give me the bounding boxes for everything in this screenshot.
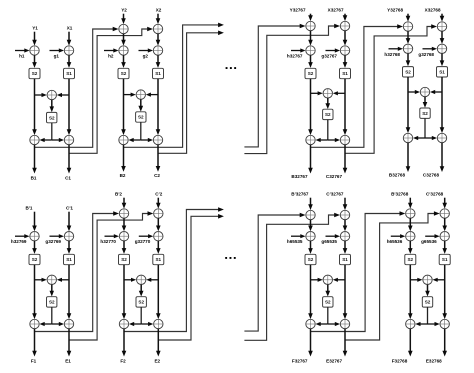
- svg-text:C′32767: C′32767: [326, 192, 344, 197]
- wire unit2 right branch into middle xor: [150, 94, 158, 96]
- wire unit2 output arrow B2: [123, 145, 125, 168]
- svg-text:S2: S2: [325, 300, 331, 305]
- svg-text:S1: S1: [155, 257, 161, 262]
- wire unit1 key input h1: [15, 50, 26, 52]
- xor gate unit32770 feedback-mix right: [154, 209, 163, 218]
- wire unit32769 right input arrow: [68, 212, 70, 227]
- wire unit1 output arrow C1: [68, 145, 70, 169]
- wire unit32767 junction to right output xor: [328, 139, 336, 141]
- svg-text:h65535: h65535: [287, 239, 303, 244]
- svg-text:B1: B1: [31, 175, 37, 180]
- wire unit32768 junction to right output xor: [425, 137, 433, 139]
- wire bottom-row continuation into unit3 right (jog): [244, 215, 335, 340]
- wire unit32767 key-xor to sbox right: [344, 55, 346, 63]
- wire unit32767 right branch down: [344, 79, 346, 131]
- svg-text:F2: F2: [120, 358, 126, 363]
- sbox unit65535 S2 middle: [323, 297, 333, 307]
- xor gate unit2 output left: [119, 135, 128, 144]
- wire top-row continuation into unit3 right (jog): [244, 26, 335, 154]
- svg-text:Y32767: Y32767: [290, 8, 306, 13]
- wire unit32770 left fb-xor to key-xor: [123, 218, 125, 227]
- svg-text:B′2: B′2: [115, 192, 122, 197]
- svg-text:Y1: Y1: [32, 26, 38, 31]
- xor gate unit32770 key-mix right (g32770): [154, 232, 163, 241]
- xor gate unit2 middle mixing: [136, 90, 145, 99]
- sbox unit32768 S1 right: [437, 67, 448, 77]
- xor gate unit32769 key-mix right (g32769): [64, 232, 73, 241]
- sbox unit32767 S2 middle: [323, 109, 333, 119]
- svg-text:C1: C1: [65, 175, 71, 180]
- xor gate unit1 middle mixing: [47, 90, 56, 99]
- svg-text:C′1: C′1: [66, 206, 73, 211]
- svg-text:g32768: g32768: [418, 52, 434, 57]
- wire unit2 left input arrow: [123, 14, 125, 20]
- svg-text:S2: S2: [121, 257, 127, 262]
- sbox unit32769 S2 middle: [47, 297, 57, 307]
- svg-text:S2: S2: [32, 71, 38, 76]
- wire top-row feedback C1 to unit2 right (jog): [69, 29, 148, 153]
- wire unit32770 output arrow F2: [123, 329, 125, 352]
- svg-text:S2: S2: [407, 257, 413, 262]
- xor gate unit2 key-mix left (h2): [119, 46, 128, 55]
- xor gate unit65536 output left: [406, 319, 415, 328]
- wire unit32768 right fb-xor to key-xor: [441, 31, 443, 39]
- wire unit1 middle xor to sbox S2: [51, 100, 53, 108]
- wire unit32769 right branch into middle xor: [61, 279, 69, 281]
- xor gate unit65535 key-mix right (g65535): [340, 232, 349, 241]
- wire unit1 right branch down: [68, 79, 70, 131]
- wire unit32770 left branch down: [123, 265, 125, 315]
- wire unit32767 junction to left output xor: [320, 139, 328, 141]
- svg-text:g65536: g65536: [421, 239, 437, 244]
- xor gate unit32767 output left: [306, 135, 315, 144]
- wire unit32768 middle xor to sbox S2: [424, 97, 426, 104]
- wire unit1 junction to right output xor: [52, 139, 60, 141]
- wire unit32769 output arrow E1: [68, 329, 70, 352]
- wire unit65536 key-xor to sbox left: [409, 241, 411, 249]
- wire unit2 key-xor to sbox right: [157, 55, 159, 63]
- xor gate unit32770 output right: [154, 319, 163, 328]
- wire unit32768 key input h32768: [389, 48, 400, 50]
- sbox unit32769 S1 right: [64, 254, 75, 264]
- ellipsis bottom row: [225, 257, 227, 259]
- xor gate unit32770 feedback-mix left: [119, 209, 128, 218]
- xor gate unit32770 output left: [119, 319, 128, 328]
- wire unit32767 right branch into middle xor: [337, 92, 345, 94]
- wire unit32767 left branch into middle xor: [311, 92, 319, 94]
- wire unit32769 middle xor to sbox S2: [51, 285, 53, 292]
- wire unit32768 left branch down: [407, 77, 409, 129]
- wire unit65535 key input g65535: [326, 235, 337, 237]
- xor gate unit32767 key-mix left (h32767): [306, 46, 315, 55]
- xor gate unit2 output right: [153, 135, 162, 144]
- svg-text:S2: S2: [405, 70, 411, 75]
- wire unit32767 left fb-xor to key-xor: [310, 31, 312, 41]
- svg-text:F32767: F32767: [292, 358, 308, 363]
- xor gate unit32767 key-mix right (g32767): [340, 46, 349, 55]
- wire unit2 key input h2: [104, 50, 115, 52]
- svg-text:S2: S2: [138, 115, 144, 120]
- wire unit65535 output arrow F32767: [310, 329, 312, 352]
- svg-text:h2: h2: [108, 54, 114, 59]
- wire unit1 middle sbox down to junction: [51, 123, 53, 140]
- wire unit65535 right branch down: [344, 265, 346, 315]
- wire unit32768 output arrow B32768: [407, 143, 409, 168]
- wire unit32769 right branch down: [68, 265, 70, 315]
- xor gate unit32767 feedback-mix left: [306, 21, 315, 30]
- sbox unit65536 S1 right: [439, 254, 450, 264]
- wire unit32768 junction to left output xor: [417, 137, 425, 139]
- wire unit32770 middle sbox down to junction: [140, 307, 142, 324]
- wire bottom-row feedback C2 toward ellipsis: [158, 216, 219, 340]
- xor gate unit65535 feedback-mix right: [340, 210, 349, 219]
- wire unit65536 key-xor to sbox right: [444, 241, 446, 249]
- wire unit65535 left fb-xor to key-xor: [310, 220, 312, 227]
- wire unit2 left fb-xor to key-xor: [123, 34, 125, 41]
- wire unit32767 right input arrow: [344, 14, 346, 17]
- wire unit32769 key input h32769: [15, 235, 26, 237]
- wire unit32769 key-xor to sbox right: [68, 241, 70, 249]
- sbox unit65536 S2 left: [405, 254, 416, 264]
- wire unit2 middle sbox down to junction: [140, 122, 142, 140]
- wire unit32769 junction to left output xor: [44, 323, 52, 325]
- wire unit32770 right input arrow: [157, 198, 159, 204]
- wire bottom-row feedback B2 toward ellipsis: [124, 210, 219, 332]
- sbox unit1 S2 left: [29, 68, 40, 78]
- xor gate unit32768 key-mix right (g32768): [437, 44, 446, 53]
- xor gate unit1 key-mix right (g1): [64, 46, 73, 55]
- xor gate unit32767 output right: [340, 135, 349, 144]
- wire unit32770 right branch into middle xor: [150, 279, 158, 281]
- svg-text:g32770: g32770: [135, 239, 151, 244]
- wire unit1 key-xor to sbox left: [34, 55, 36, 63]
- xor gate unit2 feedback-mix left: [119, 24, 128, 33]
- svg-text:g2: g2: [143, 54, 149, 59]
- svg-text:h32768: h32768: [384, 52, 400, 57]
- wire unit1 output arrow B1: [34, 145, 36, 169]
- sbox unit32770 S1 right: [153, 254, 164, 264]
- svg-text:C′32768: C′32768: [426, 192, 444, 197]
- sbox unit2 S2 middle: [136, 112, 146, 122]
- svg-text:S2: S2: [138, 300, 144, 305]
- wire unit32767 middle sbox down to junction: [327, 120, 329, 140]
- wire unit32768 output arrow C32768: [441, 143, 443, 168]
- wire unit65535 right fb-xor to key-xor: [344, 220, 346, 227]
- sbox unit65535 S1 right: [340, 254, 351, 264]
- xor gate unit65536 key-mix left (h65536): [406, 232, 415, 241]
- wire unit65535 middle sbox down to junction: [327, 307, 329, 324]
- svg-text:g1: g1: [54, 54, 60, 59]
- sbox unit32769 S2 left: [29, 254, 40, 264]
- svg-text:h32770: h32770: [100, 239, 116, 244]
- wire unit65536 output arrow F32768: [409, 329, 411, 352]
- xor gate unit65535 key-mix left (h65535): [306, 232, 315, 241]
- svg-text:B2: B2: [120, 173, 126, 178]
- wire unit32770 key-xor to sbox right: [157, 241, 159, 249]
- wire unit1 right branch into middle xor: [61, 94, 69, 96]
- wire unit65535 key input h65535: [291, 235, 302, 237]
- xor gate unit1 output right: [64, 135, 73, 144]
- wire unit1 key-xor to sbox right: [68, 55, 70, 63]
- wire top-row feedback C32767 to unit4 right (jog): [345, 27, 432, 154]
- xor gate unit32768 feedback-mix right: [437, 22, 446, 31]
- xor gate unit32770 middle mixing: [137, 275, 146, 284]
- wire top-row feedback B32767 to unit4 left: [311, 27, 399, 148]
- wire unit32770 key-xor to sbox left: [123, 241, 125, 249]
- wire unit65535 output arrow E32767: [344, 329, 346, 352]
- wire unit65536 left branch down: [409, 265, 411, 315]
- wire unit32770 left branch into middle xor: [124, 279, 132, 281]
- xor gate unit32767 middle mixing: [323, 89, 332, 98]
- wire unit65536 output arrow E32768: [444, 329, 446, 352]
- svg-text:S1: S1: [342, 257, 348, 262]
- wire unit65536 key input g65536: [425, 235, 436, 237]
- svg-text:S1: S1: [66, 71, 72, 76]
- wire unit65536 right fb-xor to key-xor: [444, 218, 446, 227]
- wire unit32767 key input h32767: [291, 50, 302, 52]
- wire unit65535 key-xor to sbox right: [344, 241, 346, 249]
- xor gate unit2 key-mix right (g2): [153, 46, 162, 55]
- xor gate unit32767 feedback-mix right: [340, 21, 349, 30]
- svg-text:S2: S2: [325, 112, 331, 117]
- svg-text:X1: X1: [67, 26, 73, 31]
- wire unit65535 middle xor to sbox S2: [327, 285, 329, 292]
- svg-text:h65536: h65536: [387, 239, 403, 244]
- svg-text:S1: S1: [66, 257, 72, 262]
- xor gate unit65535 output right: [340, 319, 349, 328]
- wire unit65536 right branch into middle xor: [437, 279, 445, 281]
- wire unit65535 right branch into middle xor: [337, 279, 345, 281]
- wire unit65536 junction to left output xor: [419, 323, 427, 325]
- wire unit32767 left input arrow: [310, 14, 312, 17]
- wire unit32770 middle xor to sbox S2: [140, 285, 142, 292]
- wire unit32768 left fb-xor to key-xor: [407, 31, 409, 39]
- svg-text:X32768: X32768: [425, 8, 441, 13]
- xor gate unit32769 middle mixing: [47, 275, 56, 284]
- wire unit32770 junction to right output xor: [141, 323, 149, 325]
- svg-text:S2: S2: [308, 71, 314, 76]
- wire unit65536 right input arrow: [444, 198, 446, 204]
- xor gate unit65535 output left: [306, 319, 315, 328]
- xor gate unit65535 feedback-mix left: [306, 210, 315, 219]
- sbox unit32770 S2 middle: [136, 297, 146, 307]
- wire unit32768 key-xor to sbox right: [441, 54, 443, 62]
- svg-text:Y2: Y2: [121, 8, 127, 13]
- wire unit32767 right fb-xor to key-xor: [344, 31, 346, 41]
- xor gate unit1 key-mix left (h1): [30, 46, 39, 55]
- wire bottom-row feedback B32767 to unit4 left: [311, 214, 401, 332]
- wire unit2 right fb-xor to key-xor: [157, 34, 159, 41]
- xor gate unit65536 feedback-mix left: [406, 209, 415, 218]
- wire unit1 right input arrow: [68, 32, 70, 41]
- wire unit2 right input arrow: [157, 14, 159, 20]
- sbox unit1 S2 middle: [47, 112, 57, 122]
- sbox unit2 S2 left: [118, 68, 129, 78]
- xor gate unit32769 output right: [64, 319, 73, 328]
- svg-text:C32768: C32768: [423, 172, 440, 177]
- wire top-row feedback B2 toward ellipsis: [124, 25, 220, 147]
- wire unit65536 left fb-xor to key-xor: [409, 218, 411, 227]
- wire unit65535 left input arrow: [310, 198, 312, 206]
- svg-text:S2: S2: [422, 111, 428, 116]
- wire unit65536 left branch into middle xor: [410, 279, 418, 281]
- svg-text:X32767: X32767: [328, 8, 344, 13]
- wire unit32767 left branch down: [310, 79, 312, 131]
- wire unit1 key input g1: [50, 50, 61, 52]
- wire unit65535 key-xor to sbox left: [310, 241, 312, 249]
- wire unit32770 left input arrow: [123, 198, 125, 204]
- wire unit32769 middle sbox down to junction: [51, 307, 53, 324]
- sbox unit32767 S1 right: [340, 68, 351, 78]
- sbox unit32768 S2 left: [403, 67, 414, 77]
- wire unit32769 key-xor to sbox left: [34, 241, 36, 249]
- xor gate unit1 output left: [30, 135, 39, 144]
- wire unit1 left input arrow: [34, 32, 36, 41]
- wire unit32768 left branch into middle xor: [408, 91, 416, 93]
- svg-text:X2: X2: [156, 8, 162, 13]
- xor gate unit32768 middle mixing: [420, 87, 429, 96]
- wire unit65535 right input arrow: [344, 198, 346, 206]
- xor gate unit2 feedback-mix right: [153, 24, 162, 33]
- wire unit32769 junction to right output xor: [52, 323, 60, 325]
- wire unit65535 junction to left output xor: [320, 323, 328, 325]
- xor gate unit32770 key-mix left (h32770): [119, 232, 128, 241]
- sbox unit32767 S2 left: [305, 68, 316, 78]
- wire unit32770 junction to left output xor: [133, 323, 141, 325]
- xor gate unit65536 feedback-mix right: [440, 209, 449, 218]
- wire unit65536 key input h65536: [391, 235, 402, 237]
- wire unit32770 right branch down: [157, 265, 159, 315]
- svg-text:S2: S2: [121, 71, 127, 76]
- wire bottom-row feedback C1 to unit2 right (jog): [69, 214, 149, 341]
- wire unit32767 output arrow C32767: [344, 145, 346, 169]
- xor gate unit65536 middle mixing: [423, 275, 432, 284]
- wire unit2 output arrow C2: [157, 145, 159, 168]
- wire unit32767 key-xor to sbox left: [310, 55, 312, 63]
- wire unit32768 right input arrow: [441, 14, 443, 17]
- xor gate unit65535 middle mixing: [323, 275, 332, 284]
- wire unit32767 middle xor to sbox S2: [327, 98, 329, 104]
- sbox unit32768 S2 middle: [420, 108, 430, 118]
- wire unit1 junction to left output xor: [44, 139, 52, 141]
- svg-text:h1: h1: [19, 54, 25, 59]
- wire unit32770 output arrow E2: [157, 329, 159, 352]
- wire bottom-row feedback B1 to unit2 left: [35, 214, 115, 332]
- wire unit32767 key input g32767: [326, 50, 337, 52]
- xor gate unit32768 feedback-mix left: [403, 22, 412, 31]
- wire unit32769 key input g32769: [50, 235, 61, 237]
- svg-text:h32767: h32767: [287, 54, 303, 59]
- svg-text:B32767: B32767: [291, 174, 308, 179]
- wire top-row feedback B1 to unit2 left: [35, 29, 114, 147]
- svg-text:B′32767: B′32767: [291, 192, 309, 197]
- wire unit32768 key input g32768: [423, 48, 434, 50]
- wire unit32770 key input h32770: [105, 235, 116, 237]
- sbox unit65536 S2 middle: [422, 297, 432, 307]
- svg-text:S2: S2: [308, 257, 314, 262]
- svg-text:B32768: B32768: [389, 172, 406, 177]
- xor gate unit65536 key-mix right (g65536): [440, 232, 449, 241]
- svg-text:g32767: g32767: [321, 54, 337, 59]
- svg-text:h32769: h32769: [11, 239, 27, 244]
- wire unit2 left branch into middle xor: [124, 94, 132, 96]
- wire unit1 left branch into middle xor: [35, 94, 43, 96]
- xor gate unit32769 output left: [30, 319, 39, 328]
- wire unit32768 right branch into middle xor: [434, 91, 442, 93]
- xor gate unit65536 output right: [440, 319, 449, 328]
- xor gate unit32768 output right: [437, 133, 446, 142]
- wire unit65535 left branch into middle xor: [311, 279, 319, 281]
- wire top-row continuation into unit3 left: [244, 26, 301, 147]
- wire unit65536 left input arrow: [409, 198, 411, 204]
- xor gate unit32769 key-mix left (h32769): [30, 232, 39, 241]
- wire unit1 left branch down: [34, 79, 36, 131]
- xor gate unit32768 output left: [403, 133, 412, 142]
- svg-text:g65535: g65535: [321, 239, 337, 244]
- svg-text:S1: S1: [442, 257, 448, 262]
- wire unit2 key-xor to sbox left: [123, 55, 125, 63]
- wire unit65536 middle xor to sbox S2: [427, 285, 429, 292]
- svg-text:S1: S1: [155, 71, 161, 76]
- wire unit65536 right branch down: [444, 265, 446, 315]
- svg-text:C′2: C′2: [155, 192, 162, 197]
- svg-text:E32767: E32767: [326, 358, 342, 363]
- wire unit65536 junction to right output xor: [428, 323, 436, 325]
- svg-text:S2: S2: [49, 300, 55, 305]
- svg-text:B′1: B′1: [26, 206, 33, 211]
- ellipsis top row: [226, 67, 228, 69]
- wire unit32769 output arrow F1: [34, 329, 36, 352]
- wire unit32768 left input arrow: [407, 14, 409, 17]
- svg-text:E32768: E32768: [426, 358, 442, 363]
- wire unit2 middle xor to sbox S2: [140, 99, 142, 107]
- wire top-row feedback C2 toward ellipsis: [158, 33, 219, 154]
- wire unit32769 left branch into middle xor: [35, 279, 43, 281]
- wire unit2 key input g2: [139, 50, 150, 52]
- svg-text:F32768: F32768: [392, 358, 408, 363]
- sbox unit32770 S2 left: [119, 254, 130, 264]
- svg-text:E2: E2: [154, 358, 160, 363]
- wire unit32769 left input arrow: [34, 212, 36, 227]
- svg-text:S2: S2: [425, 300, 431, 305]
- svg-text:C2: C2: [154, 173, 160, 178]
- wire unit32770 right fb-xor to key-xor: [157, 218, 159, 227]
- svg-text:C32767: C32767: [326, 174, 343, 179]
- svg-text:F1: F1: [31, 358, 37, 363]
- wire unit32769 left branch down: [34, 265, 36, 315]
- sbox unit65535 S2 left: [305, 254, 316, 264]
- wire unit32768 right branch down: [441, 77, 443, 129]
- wire unit2 junction to right output xor: [141, 139, 149, 141]
- sbox unit1 S1 right: [64, 68, 75, 78]
- wire unit2 right branch down: [157, 79, 159, 131]
- svg-text:S2: S2: [32, 257, 38, 262]
- wire unit2 left branch down: [123, 79, 125, 131]
- svg-text:B′32768: B′32768: [391, 192, 409, 197]
- svg-text:E1: E1: [65, 358, 71, 363]
- svg-text:g32769: g32769: [45, 239, 61, 244]
- sbox unit2 S1 right: [153, 68, 164, 78]
- svg-text:S1: S1: [342, 71, 348, 76]
- svg-text:Y32768: Y32768: [387, 8, 403, 13]
- wire unit32767 output arrow B32767: [310, 145, 312, 169]
- wire unit32768 key-xor to sbox left: [407, 54, 409, 62]
- wire unit65535 junction to right output xor: [328, 323, 336, 325]
- wire unit65536 middle sbox down to junction: [427, 307, 429, 324]
- xor gate unit32768 key-mix left (h32768): [403, 44, 412, 53]
- wire unit65535 left branch down: [310, 265, 312, 315]
- svg-text:S1: S1: [439, 70, 445, 75]
